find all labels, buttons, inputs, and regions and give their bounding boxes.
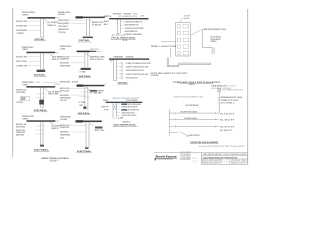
svg-text:SAND BEDDING: SAND BEDDING [60,131,69,134]
D10 right leader [50,122,55,124]
D7 tick 1 [36,93,46,95]
D2 trench walls [86,18,88,36]
D8 trench walls [84,86,86,110]
D5 trench walls [84,52,86,67]
svg-text:6" BED: 6" BED [80,72,87,74]
D4 right leader [50,54,55,57]
D6 note row 1 [121,62,123,64]
svg-text:WALL: WALL [104,23,108,26]
leader SEE GROUNDING PLAN [190,29,202,35]
D7 thin line above bar [42,81,57,83]
L-shaped wall double line [166,58,168,67]
svg-text:EXCAVATED MATL: EXCAVATED MATL [60,126,69,129]
svg-text:DETAIL: DETAIL [34,109,48,112]
svg-text:TAPE 12" BEL: TAPE 12" BEL [94,129,104,132]
D10 bottom nub [40,145,44,147]
D9 surface bar [106,102,143,103]
svg-text:SEE GROUNDING PLAN: SEE GROUNDING PLAN [204,28,227,31]
D9 trench walls [112,103,114,118]
cross ticks [174,112,176,115]
D7 tick 2 [36,97,46,99]
svg-text:PROJ NO 1785.21: PROJ NO 1785.21 [231,160,248,162]
svg-text:LOAM & SEED: LOAM & SEED [58,13,65,16]
svg-text:SPECIFIED: SPECIFIED [16,92,26,94]
svg-text:FAA BEACON: FAA BEACON [212,85,228,88]
D3 dim line [112,34,124,36]
svg-text:EL 100.0 FT: EL 100.0 FT [220,113,234,115]
svg-text:(TYP): (TYP) [55,84,61,86]
D8 right leader [86,88,90,90]
svg-text:BARE CU: BARE CU [52,58,60,61]
svg-text:ANTENNA MOUNT LEVEL: ANTENNA MOUNT LEVEL [221,96,243,99]
svg-text:SPECIFIED: SPECIFIED [16,127,26,129]
D8 bottom nub [83,107,86,109]
svg-text:TOWER: TOWER [184,15,192,17]
site plan top leader and label [179,17,183,22]
svg-text:CONDUIT SCHEDULE NOTE LINE: CONDUIT SCHEDULE NOTE LINE [126,70,145,72]
svg-text:12" BELOW: 12" BELOW [92,25,102,27]
svg-text:EXCAVATED MATL: EXCAVATED MATL [60,58,70,61]
svg-text:BARE CU: BARE CU [52,127,60,130]
svg-text:SEE NOTE 1: SEE NOTE 1 [189,135,200,137]
D11 trench walls [85,122,87,146]
svg-text:SOIL: SOIL [60,137,65,139]
svg-text:BED TYP: BED TYP [102,107,110,109]
svg-text:COMPACTED: COMPACTED [16,65,28,68]
svg-text:EDGE: EDGE [133,14,138,16]
svg-text:CONDUIT SCHEDULE NOTE LINE: CONDUIT SCHEDULE NOTE LINE [126,77,139,79]
D6 note row 5 [121,77,123,79]
svg-text:DETAIL: DETAIL [118,81,129,84]
svg-text:CONDUIT SCHEDULE NOTE LINE: CONDUIT SCHEDULE NOTE LINE [126,63,152,65]
alignment line 1 [169,112,219,114]
D5 duct bank [81,68,91,70]
D8 tick 1 [80,91,90,93]
svg-text:FINISHED GRADE: FINISHED GRADE [60,80,71,83]
svg-text:TRENCH: TRENCH [104,21,110,23]
site plan equipment row 1 [177,25,180,28]
svg-text:6" MIN: 6" MIN [79,102,86,104]
D11 bottom tick [84,146,90,148]
D6 trench walls [113,60,115,81]
svg-text:CONDUIT SCHEDULE NOTE LINE: CONDUIT SCHEDULE NOTE LINE [126,74,149,76]
D9 cable diagonals [113,104,116,110]
D7 bottom tick [40,106,44,108]
D5 right leader [86,54,90,56]
D6 note row 4 [121,73,123,75]
D6 note row 3 [121,70,123,72]
svg-text:EXCAVATED MATL: EXCAVATED MATL [16,25,27,28]
D10 surface bar [27,120,56,122]
D8 tick 2 [80,96,90,98]
alignment line 2 [169,118,219,120]
svg-text:BARE CU WIRE: BARE CU WIRE [48,93,59,96]
svg-text:BACKFILL WITH: BACKFILL WITH [16,20,27,23]
svg-text:EXISTING: EXISTING [113,14,122,16]
svg-text:LOAM: LOAM [60,118,68,121]
svg-text:TRENCH WIDTH: TRENCH WIDTH [58,20,70,22]
svg-text:LOAM: LOAM [60,47,66,50]
svg-text:TOWER AND VAULT SITE PLAN LAYO: TOWER AND VAULT SITE PLAN LAYOUT [173,81,221,84]
svg-text:NOTE CONTINUES HERE: NOTE CONTINUES HERE [128,104,141,106]
svg-text:PAD CENTERLINE: PAD CENTERLINE [186,104,200,107]
svg-text:WARNING TAPE: WARNING TAPE [92,21,104,24]
svg-text:MATCH: MATCH [104,15,112,18]
D1 trench walls [40,19,42,37]
svg-text:AS REQUIRED: AS REQUIRED [58,22,70,25]
svg-text:BACKFILL AS: BACKFILL AS [16,123,27,126]
title block top rule [154,152,248,154]
D8 dark note blob [90,90,97,92]
svg-text:CONDUIT SCHEDULE NOTE LINE: CONDUIT SCHEDULE NOTE LINE [126,67,149,69]
svg-text:CABLE TRENCH DETAILS: CABLE TRENCH DETAILS [41,157,70,160]
D7 trench walls [40,88,42,107]
svg-text:MEET EXIST: MEET EXIST [90,49,99,51]
alignment line 3 [169,125,219,127]
D1 surface bar [28,17,56,19]
svg-text:150 DOW STREET: 150 DOW STREET [180,152,191,154]
D6 note row 2 [121,66,123,68]
svg-text:SAND BEDDING: SAND BEDDING [58,28,70,31]
title block divider [229,159,231,164]
svg-text:150 DOW STREET: 150 DOW STREET [180,154,191,156]
svg-text:OF DUCT: OF DUCT [131,98,140,100]
svg-text:TY: TY [110,61,113,63]
D11 surface bar [76,121,102,123]
svg-text:SAND BEDDING TYP: SAND BEDDING TYP [125,24,140,27]
svg-text:COMPACT SUBGRADE: COMPACT SUBGRADE [125,33,143,36]
site plan equipment row 5 [177,52,180,55]
D1 right leader [45,19,48,21]
svg-text:HoyleTanner: HoyleTanner [156,154,178,158]
D9 note row 5 [117,114,120,116]
sheet right border [247,9,249,164]
svg-text:UNDISTURBED: UNDISTURBED [60,65,71,67]
svg-text:COMPACTED: COMPACTED [16,131,26,134]
svg-text:SAND BEDDING: SAND BEDDING [16,29,27,32]
D9 note row 2 [117,106,120,108]
title block box [200,153,202,165]
site plan tower rect [176,23,191,57]
svg-text:TYPICAL: TYPICAL [58,31,66,34]
svg-text:COMPACTED GRAVEL FILL: COMPACTED GRAVEL FILL [125,21,143,24]
svg-text:FINISHED: FINISHED [114,57,125,59]
svg-text:TOWER TOP 120 FT: TOWER TOP 120 FT [221,100,240,102]
svg-text:(TY: (TY [103,120,105,122]
D6 surface bar [109,58,149,59]
svg-text:DETAIL: DETAIL [79,39,91,42]
site plan equipment row 4 [177,45,180,48]
D5 surface bar dark part [77,51,90,53]
svg-text:SOIL TYP: SOIL TYP [60,100,68,102]
svg-text:COMPACT: COMPACT [16,32,25,35]
D11 bottom nub [85,147,89,149]
svg-text:DWN: DWN [192,161,196,163]
D9 note row 1 [117,103,120,105]
svg-text:GUY LEVEL 3: GUY LEVEL 3 [221,103,235,105]
svg-text:CONDUIT NOTE LINE XX: CONDUIT NOTE LINE XX [121,112,135,114]
svg-text:DETAIL 1 LAYOUT PLAN: DETAIL 1 LAYOUT PLAN [151,45,176,48]
D2 surface bar [76,17,105,19]
svg-text:CONDUIT NOTE LINE XX: CONDUIT NOTE LINE XX [121,115,137,117]
svg-text:LIMIT: LIMIT [140,15,145,17]
DETAIL label and leader [161,41,176,43]
svg-text:N.T.S.: N.T.S. [123,40,129,42]
svg-text:COMPACT: COMPACT [22,48,29,51]
D3 surface bar [109,18,148,19]
svg-text:SELECT MATL: SELECT MATL [60,89,70,92]
title block rule 3 [201,160,247,162]
D11 right leader [90,124,94,127]
D4 trench walls [40,53,42,69]
svg-text:12" BELOW: 12" BELOW [90,93,103,95]
svg-text:SLOPE: SLOPE [72,81,79,83]
svg-text:FOR CONDUIT: FOR CONDUIT [58,26,69,28]
svg-text:SAND BEDDING: SAND BEDDING [60,62,69,65]
site plan equipment row 2 [177,31,180,34]
svg-text:LIGHT: LIGHT [228,85,236,87]
svg-text:DETAIL: DETAIL [77,150,93,153]
alignment left vertical [168,109,170,136]
svg-text:SELECT MATL: SELECT MATL [16,60,27,63]
svg-text:BARE CU: BARE CU [48,24,57,27]
D2 right leader [89,19,92,21]
sheet left border [12,8,14,157]
D9 note row 4 [117,112,120,114]
svg-text:EL 98.5 FT: EL 98.5 FT [220,120,234,122]
svg-text:CONDUIT NOTE LINE XX: CONDUIT NOTE LINE XX [121,107,138,109]
svg-text:DETAIL: DETAIL [78,112,91,115]
D4 duct at bottom [37,70,46,72]
arrow leader [180,132,189,137]
vault outline vertical and duct stub [201,29,203,47]
D8 surface bar [77,85,105,87]
D11 dark note blob [95,127,103,129]
svg-text:COMPACT: COMPACT [22,13,30,16]
D7 surface bar [26,86,55,88]
title block rule 2 [201,158,247,160]
svg-text:UNDISTURBED SOIL: UNDISTURBED SOIL [125,31,138,33]
D9 bottom tick [112,118,118,120]
svg-text:SAND BEDDING: SAND BEDDING [60,94,69,97]
svg-text:GRADE: GRADE [126,56,135,59]
logo mark [155,158,156,161]
svg-text:(TY: (TY [104,84,106,86]
D2 duct bank [83,37,93,39]
svg-text:150 DOW STREET: 150 DOW STREET [180,156,191,158]
svg-text:COMPACT: COMPACT [22,118,29,121]
site plan equipment row 3 [177,38,180,41]
D10 tick 3 [35,133,45,135]
svg-text:L-810 OBSTRUCTION LIGHT: L-810 OBSTRUCTION LIGHT [222,90,244,92]
svg-text:EL 97.0 FT: EL 97.0 FT [220,127,234,129]
svg-text:150 DOW STREET: 150 DOW STREET [180,159,191,161]
trench route line [169,49,171,58]
svg-text:SAND BED: SAND BED [16,134,25,137]
D9 note row 3 [117,109,120,111]
svg-text:EL 95.5 FT: EL 95.5 FT [220,130,232,132]
svg-text:DES BY JDM CHK RPM: DES BY JDM CHK RPM [202,160,223,162]
D3 trench walls [116,19,118,33]
D7 conduit blob [39,100,44,105]
svg-text:6 MIN: 6 MIN [119,118,124,120]
D4 surface bar [26,52,55,54]
svg-text:PAVEMENT: PAVEMENT [124,13,132,16]
D10 trench walls [39,122,41,144]
svg-text:N.T.S.: N.T.S. [50,161,57,163]
beacon symbol [218,88,221,91]
svg-text:BACKFILL WITH: BACKFILL WITH [16,56,27,59]
svg-text:FILE NO: FILE NO [192,156,197,158]
svg-text:NOTE SEE SHEET E1 FOR DUCT: NOTE SEE SHEET E1 FOR DUCT [151,73,189,75]
pad edge long double line [179,62,211,64]
D7 right leader [45,88,48,90]
D10 tick 2 [35,129,45,131]
D7 note box [20,97,30,101]
svg-text:UNDISTURBED: UNDISTURBED [60,135,71,137]
title block rule 1 [201,155,247,157]
svg-text:CONDUIT AS SPECIFIED: CONDUIT AS SPECIFIED [125,27,145,30]
beacon mast [218,92,220,114]
svg-text:NOTE CONTINUES HERE: NOTE CONTINUES HERE [128,110,139,112]
stub line bottom [169,131,178,133]
D10 tick 1 [35,125,45,127]
right bracket notes [217,96,220,98]
D10 bottom tick [40,143,43,145]
svg-text:TAPE 12" BELOW: TAPE 12" BELOW [90,58,104,61]
